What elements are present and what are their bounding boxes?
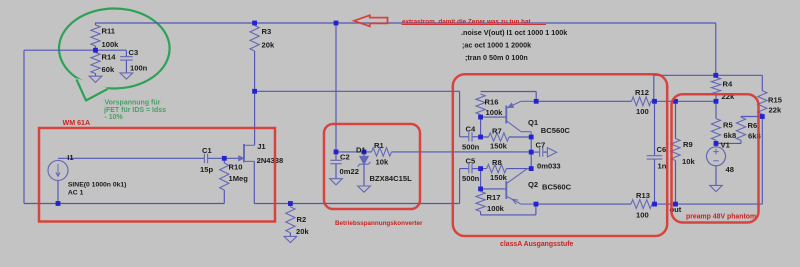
wire J1 source to lower rail	[254, 161, 459, 203]
svg-text:R13: R13	[636, 191, 650, 200]
junction I1 ground rail	[56, 201, 61, 206]
svg-text:R2: R2	[297, 215, 307, 224]
svg-text:C5: C5	[466, 156, 476, 165]
transistor J1 2N4338	[239, 144, 255, 162]
annotation speech bubble ellipse	[59, 9, 170, 89]
wire bias node to ground rail	[24, 50, 224, 203]
wire R9 leads	[675, 101, 677, 204]
junction D1 top	[362, 150, 367, 155]
resistor R9	[671, 139, 680, 161]
ground	[284, 236, 297, 242]
junction C6 bottom rail	[652, 202, 657, 207]
svg-text:R15: R15	[768, 96, 783, 105]
resistor R4	[711, 77, 720, 95]
transistor Q2 BC560C	[506, 169, 536, 204]
svg-text:0m22: 0m22	[340, 167, 359, 176]
junction C4-R7	[478, 135, 483, 140]
zener diode D1 BZX84C15L	[358, 156, 371, 166]
svg-text:V1: V1	[721, 141, 731, 150]
junction Q2 emitter rail	[534, 202, 539, 207]
svg-text:J1: J1	[257, 142, 266, 151]
ground	[710, 185, 723, 191]
resistor R13	[631, 200, 652, 209]
svg-text:BC560C: BC560C	[541, 126, 571, 135]
wire output rail	[536, 203, 762, 205]
junction R4 top	[713, 73, 718, 78]
junction gate node	[222, 156, 227, 161]
ground	[120, 73, 133, 79]
junction C2 top	[334, 150, 339, 155]
transistor Q1 BC560C	[506, 101, 536, 137]
resistor R7	[489, 133, 510, 141]
wire R6 leads	[716, 117, 741, 144]
svg-text:22k: 22k	[769, 105, 782, 114]
svg-text:R1: R1	[374, 141, 384, 150]
svg-text:;ac oct 1000 1 2000k: ;ac oct 1000 1 2000k	[462, 41, 531, 50]
capacitor C6	[647, 156, 663, 159]
svg-text:60k: 60k	[102, 65, 115, 74]
junction R5-R6-V1	[714, 141, 719, 146]
wire J1 gate lead	[224, 157, 244, 159]
junction R9 bottom rail	[673, 202, 678, 207]
wire R3 top lead	[254, 23, 256, 26]
junction Q1 emitter	[534, 99, 539, 104]
wire rail drop to R4 node	[715, 23, 717, 75]
svg-text:150k: 150k	[490, 142, 508, 151]
wire R2 leads	[289, 204, 291, 237]
wire C4 to Q1 base node	[472, 136, 481, 138]
svg-text:R8: R8	[492, 158, 502, 167]
ground	[89, 76, 102, 82]
wire rail drop to C2 node	[335, 23, 337, 152]
svg-text:R3: R3	[262, 27, 272, 36]
junction Q1 base	[478, 115, 483, 120]
junction R9 top	[673, 99, 678, 104]
wire R12 output link to R4 node	[654, 75, 716, 101]
junction R3 top	[252, 21, 257, 26]
svg-text:20k: 20k	[262, 41, 275, 50]
wire C4 input branch	[460, 91, 469, 137]
svg-text:C2: C2	[340, 153, 350, 162]
resistor R2	[286, 207, 295, 233]
wire C7 leads	[531, 151, 547, 153]
svg-text:R7: R7	[492, 127, 502, 136]
wire out column	[761, 114, 763, 204]
resistor R8	[487, 164, 507, 172]
svg-text:R10: R10	[229, 162, 243, 171]
svg-text:100k: 100k	[487, 204, 505, 213]
wire zener node and D1 leads	[336, 152, 364, 186]
resistor R14	[91, 53, 100, 74]
svg-text:500n: 500n	[462, 142, 480, 151]
junction C2 branch top	[334, 21, 339, 26]
annotation speech bubble tail	[76, 78, 108, 101]
resistor R6	[736, 117, 745, 140]
svg-text:C1: C1	[202, 146, 212, 155]
svg-text:100: 100	[636, 210, 649, 219]
wire Q2 base node link	[480, 169, 482, 189]
junction Q2 collector	[529, 166, 534, 171]
svg-text:Q1: Q1	[528, 118, 539, 127]
wire R1 leads and supply rail to C7 node	[364, 151, 531, 153]
junction R4 bottom	[714, 99, 719, 104]
resistor R16	[476, 94, 485, 115]
wire R15 top lead	[761, 75, 763, 91]
annotation underline extrastrom	[402, 24, 547, 26]
resistor R17	[476, 192, 485, 212]
svg-text:Betriebsspannungskonverter: Betriebsspannungskonverter	[335, 220, 423, 227]
svg-text:Q2: Q2	[528, 180, 538, 189]
wire C5 to Q2 base node	[472, 168, 481, 170]
capacitor C2	[330, 160, 341, 163]
resistor R5	[711, 119, 720, 141]
resistor R11	[91, 25, 100, 46]
svg-text:R12: R12	[635, 88, 649, 97]
wire I1 to C1	[58, 157, 204, 159]
svg-text:1Meg: 1Meg	[229, 174, 249, 183]
svg-text:WM 61A: WM 61A	[63, 119, 91, 127]
svg-text:150k: 150k	[490, 173, 508, 182]
svg-text:1n: 1n	[658, 161, 667, 170]
svg-text:20k: 20k	[296, 227, 309, 236]
svg-text:preamp 48V phantom: preamp 48V phantom	[686, 213, 756, 220]
svg-text:C6: C6	[657, 145, 667, 154]
wire C3 branch	[96, 50, 127, 73]
junction bias divider	[93, 48, 98, 53]
svg-text:2N4338: 2N4338	[257, 156, 284, 165]
junction C5-R8	[478, 166, 483, 171]
svg-text:0m033: 0m033	[537, 161, 561, 170]
svg-text:- 10%: - 10%	[105, 114, 124, 121]
junction R12-C6	[652, 99, 657, 104]
current source I1	[48, 160, 68, 180]
resistor R10	[220, 163, 229, 190]
svg-text:BZX84C15L: BZX84C15L	[370, 174, 413, 183]
svg-text:BC560C: BC560C	[542, 182, 572, 191]
svg-text:R5: R5	[723, 121, 733, 130]
capacitor C1	[204, 154, 207, 163]
wire R3 bottom to J1 drain	[254, 51, 256, 145]
junction R15-R6 out	[760, 114, 765, 119]
svg-text:6k8: 6k8	[724, 131, 737, 140]
svg-text:100k: 100k	[102, 40, 120, 49]
wire Q1 emitter node to R12	[536, 100, 654, 102]
wire V1 leads	[715, 143, 717, 185]
svg-text:15p: 15p	[200, 165, 213, 174]
wire R12 node to R9 and R4 node	[655, 100, 717, 102]
svg-text:.noise V(out) I1 oct 1000 1 10: .noise V(out) I1 oct 1000 1 100k	[461, 28, 567, 37]
svg-text:500n: 500n	[462, 174, 480, 183]
wire R16 top to Q1 emitter node	[481, 92, 537, 102]
svg-text:;tran 0 50m 0 100n: ;tran 0 50m 0 100n	[465, 53, 528, 62]
svg-text:100k: 100k	[486, 108, 504, 117]
voltage source V1	[707, 147, 726, 166]
svg-text:C7: C7	[536, 140, 546, 149]
annotation box WM 61A	[39, 128, 275, 222]
wire R14 leads	[95, 50, 97, 76]
svg-text:jFET für IDS = Idss: jFET für IDS = Idss	[103, 107, 166, 114]
wire R6 top to out column	[741, 116, 762, 118]
ground	[358, 186, 371, 192]
resistor R12	[632, 97, 652, 106]
svg-text:10k: 10k	[376, 157, 389, 166]
svg-text:10k: 10k	[682, 157, 695, 166]
ground	[330, 179, 343, 185]
wire R17 loop to output rail	[481, 189, 536, 215]
output port flag	[547, 148, 556, 157]
capacitor C5	[469, 164, 472, 173]
resistor R1	[372, 148, 392, 156]
annotation arrow extrastrom	[354, 15, 388, 26]
wire I1 bottom lead	[57, 180, 59, 203]
wire Q1 base lead	[481, 116, 506, 118]
svg-text:I1: I1	[67, 153, 74, 162]
svg-text:48: 48	[726, 165, 734, 174]
capacitor C4	[469, 132, 472, 141]
svg-text:Vorspannung für: Vorspannung für	[105, 100, 161, 107]
wire Q2 base lead	[481, 188, 506, 190]
annotation box classA Ausgangsstufe	[453, 74, 667, 236]
svg-text:C4: C4	[466, 125, 476, 134]
svg-text:R9: R9	[683, 140, 693, 149]
wire top supply rail	[95, 22, 716, 24]
junction R2 tap	[288, 201, 293, 206]
wire J1 drain node to C4 branch	[255, 90, 460, 92]
svg-text:100n: 100n	[130, 64, 148, 73]
wire C1 to gate node	[208, 157, 225, 159]
wire R5 bottom to V1	[715, 140, 717, 147]
resistor R3	[250, 26, 259, 52]
junction C7 input	[529, 150, 534, 155]
svg-text:R14: R14	[102, 53, 117, 62]
junction Q2 base	[478, 187, 483, 192]
wire R4 top lead	[715, 75, 717, 77]
svg-text:R4: R4	[723, 80, 733, 89]
svg-text:R6: R6	[748, 121, 758, 130]
svg-text:R17: R17	[487, 193, 501, 202]
svg-text:R16: R16	[485, 98, 499, 107]
annotation box Betriebsspannungskonverter	[324, 124, 420, 209]
wire collector node link	[530, 137, 532, 169]
wire R7 leads	[481, 136, 532, 138]
wire C5 input branch	[460, 169, 469, 204]
junction Q1 collector	[529, 135, 534, 140]
wire C2 leads	[335, 152, 337, 179]
svg-text:R11: R11	[102, 27, 116, 36]
wire R11 leads	[95, 23, 97, 50]
wire C6 leads	[654, 101, 656, 204]
wire base node link	[480, 117, 482, 137]
capacitor C7	[540, 147, 543, 156]
svg-text:SINE(0 1000n 0k1): SINE(0 1000n 0k1)	[68, 182, 127, 189]
junction J1 drain	[252, 89, 257, 94]
svg-text:classA Ausgangsstufe: classA Ausgangsstufe	[500, 241, 574, 248]
svg-text:100: 100	[636, 107, 649, 116]
wire R10 leads	[223, 158, 225, 203]
wire R4 bottom to R5 top	[715, 95, 717, 119]
annotation box preamp 48V phantom	[672, 94, 759, 222]
wire R4 node to R15 column	[716, 74, 763, 76]
resistor R15	[758, 91, 767, 114]
capacitor C3	[120, 57, 133, 60]
svg-text:AC 1: AC 1	[68, 190, 84, 197]
svg-text:D1: D1	[356, 145, 366, 154]
svg-text:C3: C3	[129, 48, 139, 57]
wire R8 leads	[481, 168, 532, 170]
